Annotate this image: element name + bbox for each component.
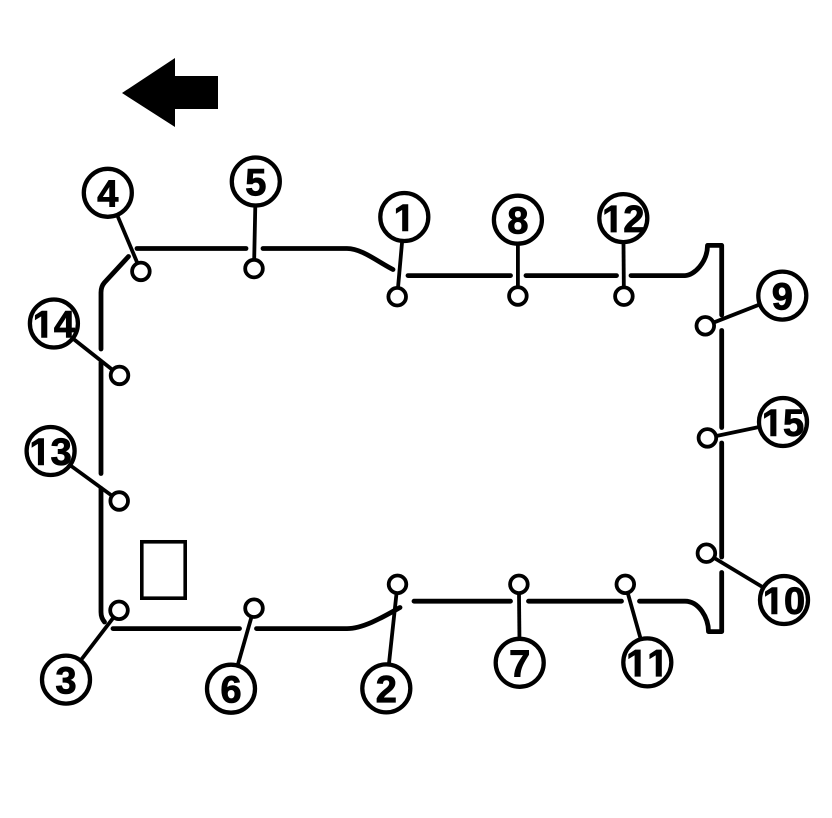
leader line 4 — [108, 193, 141, 272]
leader line 11 — [625, 584, 647, 662]
label circle 7 — [496, 639, 544, 687]
label circle 8 — [494, 196, 542, 244]
label digit 9 — [773, 283, 791, 310]
cover outline: left edge segment between 14 and 13 (gap at leader 13) — [99, 363, 104, 474]
bolt hole 10 — [698, 544, 716, 562]
bolt hole 12 — [615, 287, 633, 305]
label digit 1 — [396, 205, 407, 231]
bolt hole 15 — [699, 429, 717, 447]
label circle 3 — [42, 656, 90, 704]
cover outline: left edge lower part with bottom-left bend — [101, 489, 105, 623]
cover outline: upper-right top edge segment (gap at leader 8) — [408, 273, 511, 278]
label circle 14 — [30, 300, 78, 348]
label circle 2 — [362, 664, 410, 712]
cover outline: top edge to top-right corner flange, right edge upper part (gap at leader 9) — [631, 245, 722, 315]
label circle 5 — [232, 158, 280, 206]
cover outline: bottom edge segment right of step (gap at leader 2) — [414, 599, 511, 604]
bolt hole 5 — [245, 260, 263, 278]
cover outline: right edge segment between 15 and 10 (gap at leader 10) — [719, 443, 724, 557]
label digit 4 — [98, 180, 118, 206]
cover outline: right edge segment between 9 and 15 (gap at leader 15) — [719, 331, 724, 428]
label circle 6 — [207, 665, 255, 713]
label circle 9 — [758, 272, 806, 320]
bolt hole 8 — [509, 287, 527, 305]
leader line 12 — [621, 218, 625, 296]
leader line 7 — [517, 584, 522, 663]
bolt hole 2 — [389, 576, 407, 594]
label digit 7 — [511, 650, 529, 676]
cover outline: top edge and step-down (gap at leader 1) — [263, 249, 393, 270]
cover outline: bottom step-up and lower bottom edge (gap at leader 6) — [257, 608, 401, 629]
cover outline: bottom edge left segment — [113, 626, 240, 631]
leader line 3 — [66, 610, 119, 679]
leader line 2 — [386, 584, 397, 688]
leader line 9 — [705, 296, 782, 326]
leader line 8 — [516, 220, 520, 296]
bolt hole 1 — [388, 288, 406, 306]
label digit 6 — [222, 676, 240, 703]
leader line 13 — [51, 451, 120, 501]
cover outline: top-left chamfer and left edge upper part (gap at leader 14) — [101, 257, 129, 350]
leader line 1 — [397, 217, 404, 297]
label circle 12 — [599, 194, 647, 242]
leader line 10 — [706, 553, 784, 600]
bolt hole 6 — [245, 599, 263, 617]
cover outline: top edge segment between 8 and 12 (gap at leader 12) — [526, 273, 617, 278]
label digits 12 — [605, 206, 616, 232]
alignment mark rectangle — [142, 542, 185, 598]
label circle 11 — [623, 638, 671, 686]
cover outline: bottom edge segment between 11 and 7 (gap at leader 7) — [529, 599, 622, 604]
leader line 6 — [231, 608, 254, 689]
bolt hole 7 — [510, 576, 528, 594]
bolt hole 3 — [110, 602, 128, 620]
bolt hole 14 — [111, 367, 129, 385]
bolt hole 4 — [132, 263, 150, 281]
leader line 15 — [707, 422, 783, 438]
leader line 5 — [254, 182, 256, 269]
label digits 15 — [764, 410, 775, 436]
leader line 14 — [54, 324, 120, 376]
label digits 13 — [32, 439, 43, 465]
label digit 8 — [509, 207, 528, 234]
label digits 11 — [629, 650, 640, 676]
label digits 14 — [35, 311, 46, 337]
arrow (front-of-engine indicator) — [122, 58, 218, 127]
label digit 5 — [246, 169, 265, 196]
label circle 4 — [84, 169, 132, 217]
bolt hole 9 — [697, 317, 715, 335]
label digit 2 — [377, 676, 395, 703]
label digits 10 — [765, 588, 776, 614]
cover outline: right edge lower part, bottom-right corner flange, bottom edge (gap at leader 11) — [640, 573, 722, 632]
label circle 15 — [759, 398, 807, 446]
label circle 10 — [760, 576, 808, 624]
cover outline: top edge left segment (gap at leader 5) — [137, 246, 246, 251]
label circle 1 — [380, 193, 428, 241]
bolt hole 11 — [617, 576, 635, 594]
bolt hole 13 — [110, 492, 128, 510]
label digit 3 — [56, 667, 75, 694]
label circle 13 — [27, 427, 75, 475]
